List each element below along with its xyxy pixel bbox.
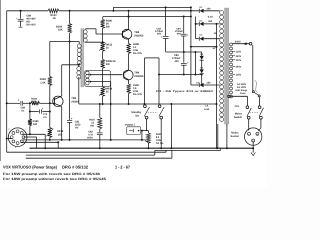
- svg-text:115V: 115V: [236, 74, 242, 77]
- svg-text:2W: 2W: [106, 63, 110, 66]
- svg-text:1A: 1A: [205, 104, 208, 107]
- svg-text:7: 7: [25, 128, 26, 131]
- svg-text:230V: 230V: [236, 55, 242, 58]
- svg-text:D1 - D6 Types 404 or 38B60: D1 - D6 Types 404 or 38B60: [156, 90, 214, 93]
- svg-text:Switch: Switch: [234, 116, 243, 119]
- svg-text:Fuse: Fuse: [240, 92, 246, 95]
- svg-text:2N3055: 2N3055: [134, 75, 144, 78]
- svg-text:2N364: 2N364: [71, 101, 79, 104]
- svg-text:250: 250: [208, 20, 213, 23]
- svg-text:5% 10%: 5% 10%: [133, 52, 143, 55]
- svg-text:40V: 40V: [175, 60, 180, 63]
- svg-text:6.3A: 6.3A: [208, 16, 213, 19]
- svg-text:For 18W preamp without reverb: For 18W preamp without reverb see DRG # …: [3, 177, 106, 181]
- svg-text:8V: 8V: [75, 126, 78, 129]
- svg-text:Socket: Socket: [231, 135, 240, 138]
- svg-text:1 - 2 - 67: 1 - 2 - 67: [115, 164, 131, 169]
- svg-text:6.3A: 6.3A: [204, 108, 209, 111]
- svg-text:210V: 210V: [236, 59, 242, 62]
- svg-text:FS1: FS1: [235, 105, 240, 108]
- svg-text:115V: 115V: [236, 51, 242, 54]
- svg-text:6V: 6V: [213, 47, 216, 50]
- svg-text:15K: 15K: [58, 29, 63, 32]
- svg-text:1: 1: [15, 146, 16, 149]
- svg-text:Output 1: Output 1: [125, 123, 136, 126]
- svg-text:1K: 1K: [53, 17, 56, 20]
- svg-text:250: 250: [58, 133, 63, 136]
- svg-text:2W: 2W: [106, 26, 110, 29]
- svg-text:250: 250: [207, 8, 212, 11]
- svg-text:5% 10%: 5% 10%: [133, 93, 143, 96]
- svg-text:+: +: [160, 35, 162, 39]
- svg-text:6.8K: 6.8K: [32, 100, 37, 103]
- svg-text:600V: 600V: [87, 136, 93, 139]
- svg-text:3: 3: [8, 128, 9, 131]
- svg-text:+: +: [187, 33, 189, 37]
- svg-text:500 05V: 500 05V: [26, 23, 36, 26]
- svg-text:Cd 1%: Cd 1%: [156, 142, 164, 145]
- svg-text:200V: 200V: [236, 66, 242, 69]
- svg-text:R182: R182: [31, 97, 37, 100]
- svg-text:VOX VIRTUOSO (Power Stage): VOX VIRTUOSO (Power Stage): [3, 164, 58, 169]
- svg-text:For 15W preamp with reverb see: For 15W preamp with reverb see DRG # 05/…: [3, 172, 100, 176]
- svg-text:40V: 40V: [177, 32, 182, 35]
- svg-text:Sw: Sw: [135, 115, 139, 118]
- svg-text:240V: 240V: [235, 41, 241, 44]
- svg-text:250: 250: [207, 82, 212, 85]
- svg-text:DRG # 05/132: DRG # 05/132: [62, 164, 89, 169]
- svg-text:+: +: [187, 61, 189, 65]
- svg-text:2N3055: 2N3055: [134, 34, 144, 37]
- svg-text:40V: 40V: [157, 32, 162, 35]
- svg-text:620: 620: [33, 123, 38, 126]
- svg-text:1.5K: 1.5K: [40, 81, 45, 84]
- svg-text:+: +: [16, 16, 18, 20]
